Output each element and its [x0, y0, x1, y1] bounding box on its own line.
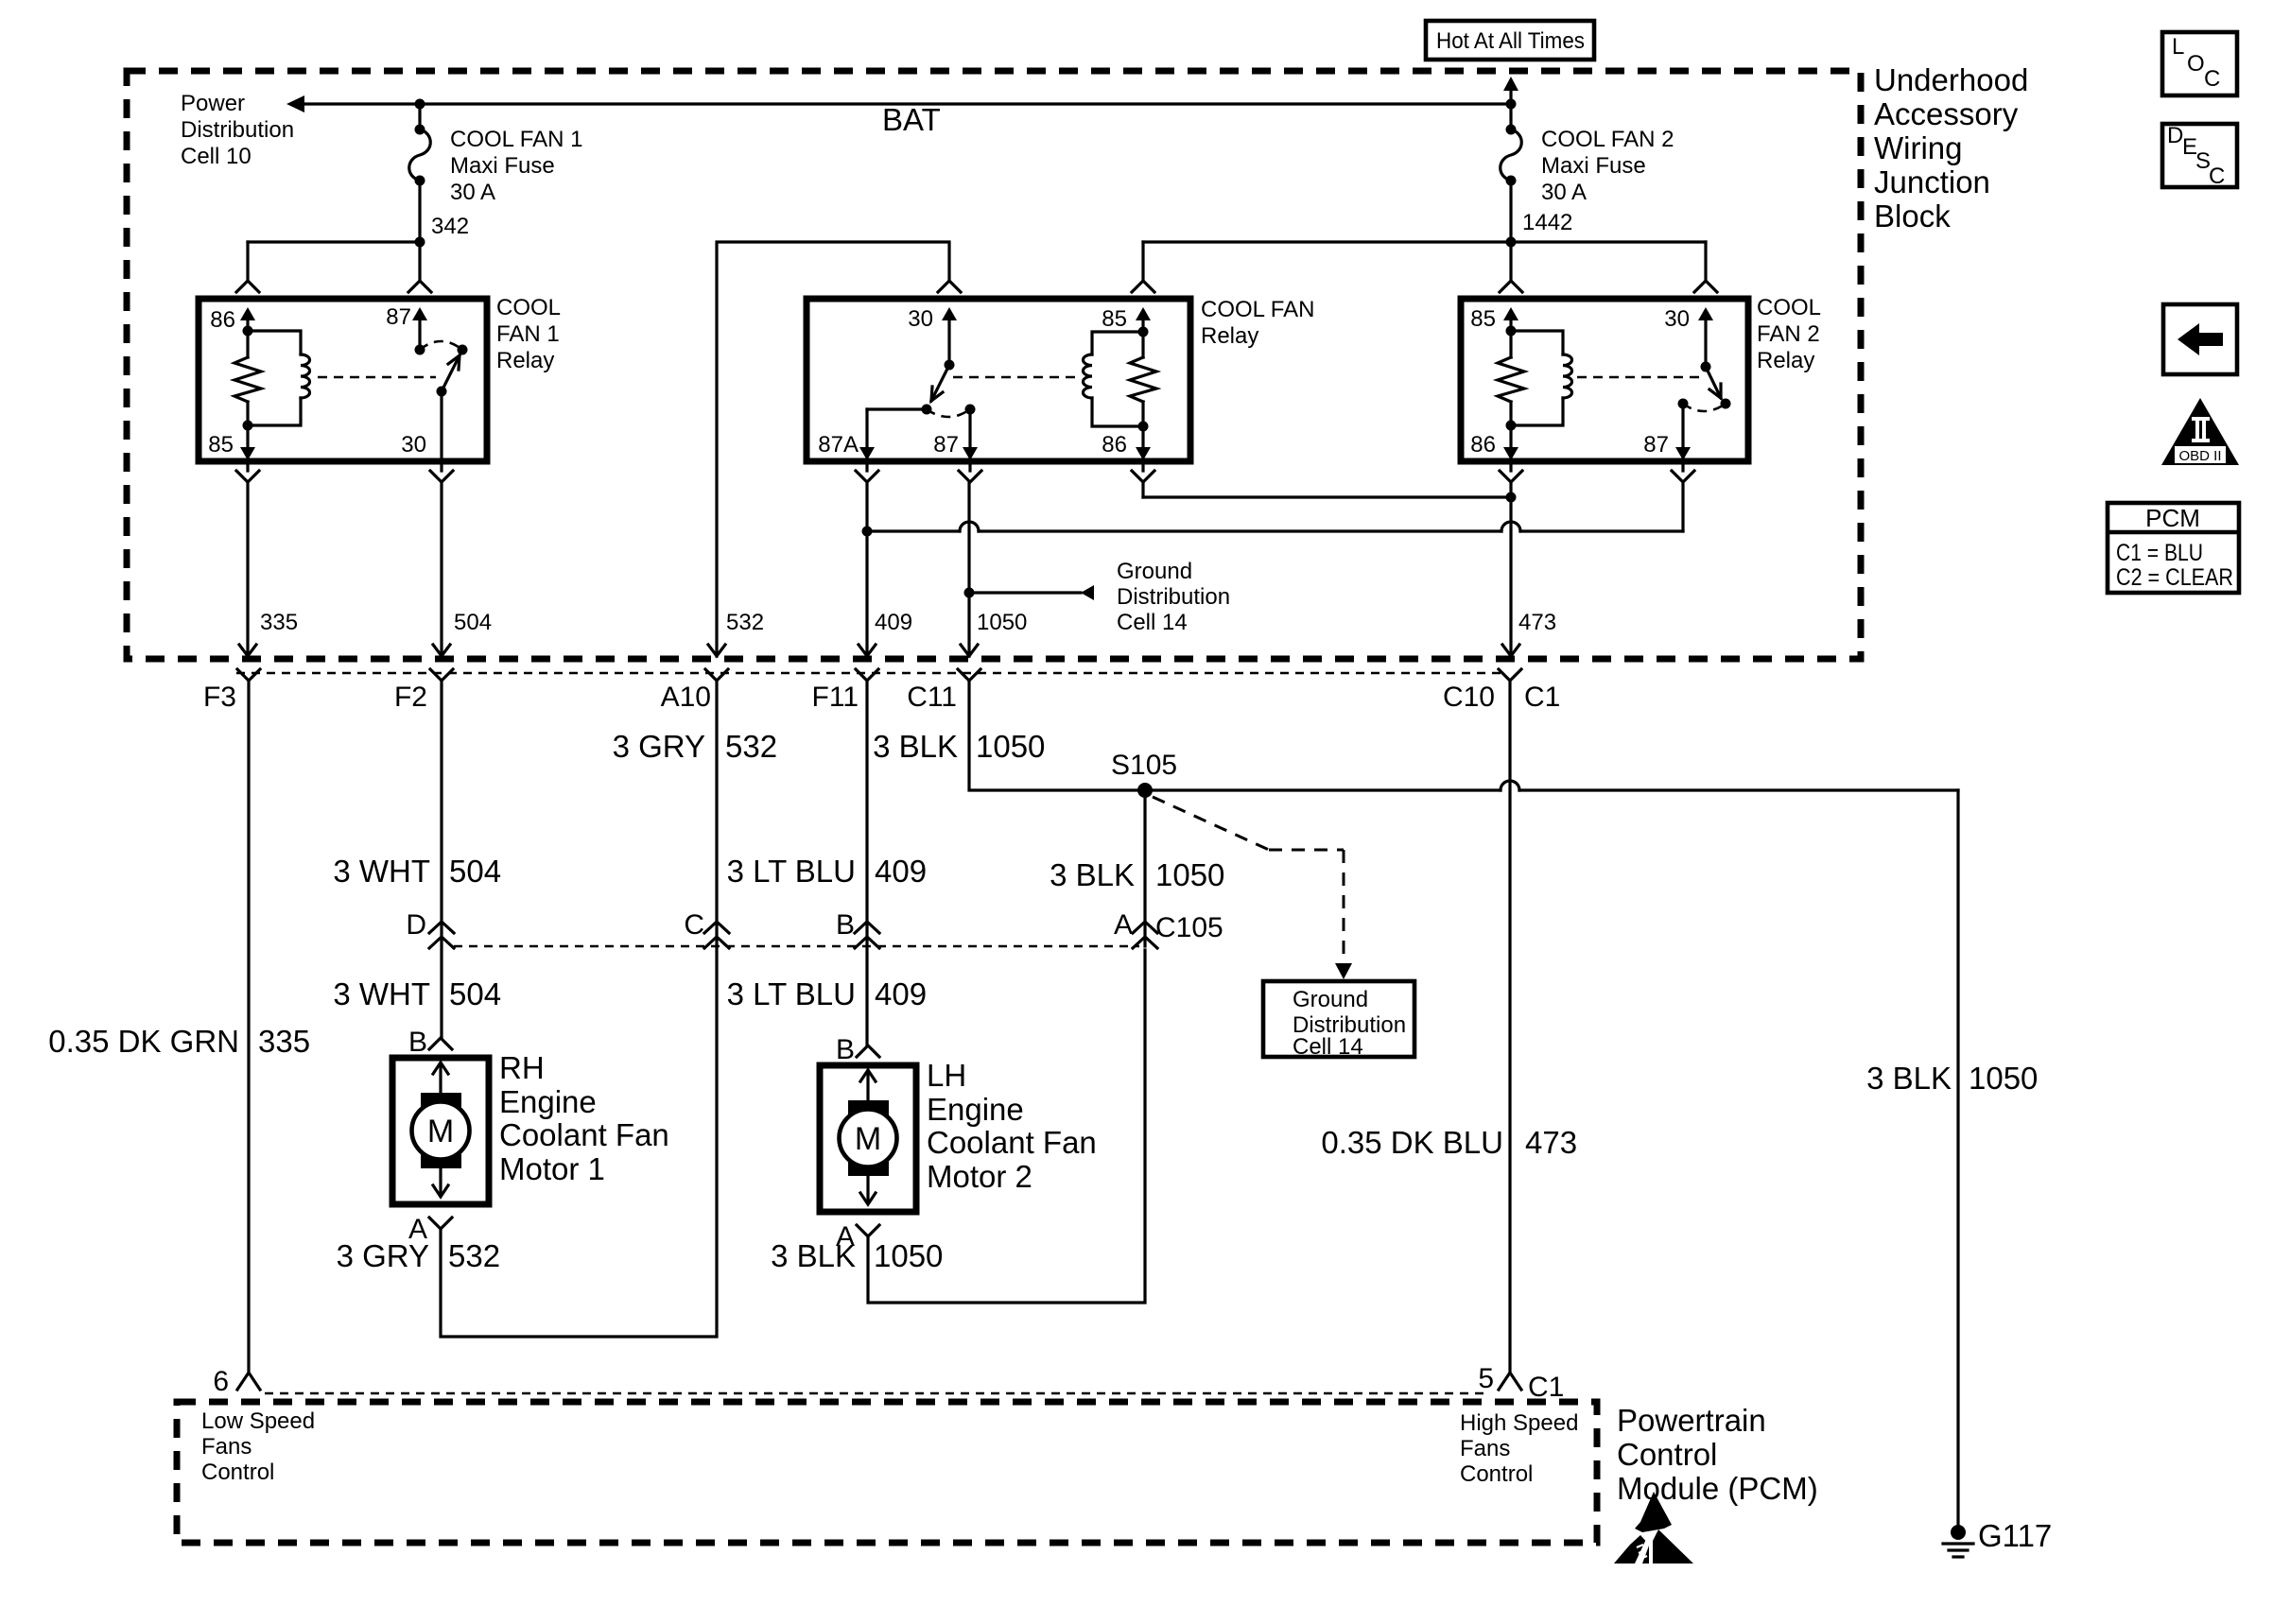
wire 504 (relay K1 30 to F2) — [433, 482, 492, 656]
svg-text:87: 87 — [933, 432, 959, 458]
svg-text:504: 504 — [449, 854, 501, 889]
svg-text:85: 85 — [1470, 306, 1496, 332]
wire 473 (C10 to PCM pin 5) — [1508, 681, 1511, 1373]
svg-text:C11: C11 — [907, 682, 957, 713]
svg-text:Motor 2: Motor 2 — [927, 1159, 1032, 1194]
connector F3 — [203, 669, 260, 713]
relay K3 pin 87 — [1643, 404, 1691, 460]
relay K1 switch (arm + dashed throw arc) — [420, 341, 468, 397]
motor M1 connector pin A — [408, 1214, 452, 1245]
box: Ground Distribution Cell 14 — [1263, 981, 1414, 1060]
icon: OBD II triangle — [2161, 398, 2239, 465]
svg-text:F3: F3 — [203, 682, 236, 713]
PCM dashed box: Powertrain Control Module — [177, 1402, 1597, 1543]
svg-text:85: 85 — [208, 432, 234, 458]
svg-text:30: 30 — [1664, 306, 1690, 332]
svg-text:M: M — [427, 1114, 454, 1149]
svg-text:Junction: Junction — [1874, 164, 1990, 199]
label 3 LT BLU 409 (upper) — [727, 854, 927, 889]
relay K1 box: COOL FAN 1 Relay — [199, 299, 487, 461]
svg-text:COOL FAN 2: COOL FAN 2 — [1541, 127, 1674, 152]
svg-text:335: 335 — [258, 1024, 310, 1059]
relay K3 resistor — [1498, 331, 1524, 425]
svg-text:409: 409 — [875, 610, 912, 635]
svg-text:Relay: Relay — [1201, 323, 1258, 349]
svg-text:Ground: Ground — [1293, 987, 1368, 1012]
relay K2 pin 87 — [933, 409, 978, 460]
svg-text:3 LT BLU: 3 LT BLU — [727, 854, 856, 889]
relay K1 pin 86 — [210, 307, 255, 337]
svg-text:Distribution: Distribution — [181, 117, 294, 143]
connector F2 — [394, 669, 453, 713]
connector row dashed line (junction block bottom) — [236, 672, 1503, 675]
svg-text:3 LT BLU: 3 LT BLU — [727, 976, 856, 1011]
relay K2 switch (arm + dashed throw arc) — [922, 365, 976, 417]
relay K1 coil — [243, 331, 310, 431]
relay K3 switch (arm + dashed throw arc) — [1678, 367, 1731, 411]
label: Powertrain Control Module (PCM) — [1617, 1403, 1818, 1506]
svg-text:Module (PCM): Module (PCM) — [1617, 1471, 1818, 1506]
connector chevrons above relay K1 — [236, 281, 431, 292]
svg-text:OBD II: OBD II — [2178, 448, 2221, 464]
connector chevrons below relay K3 — [1500, 461, 1694, 482]
svg-text:LH: LH — [927, 1058, 966, 1093]
svg-text:C: C — [2209, 164, 2225, 189]
svg-text:Cell 10: Cell 10 — [181, 144, 252, 169]
label: Underhood Accessory Wiring Junction Block — [1874, 62, 2028, 233]
svg-text:1442: 1442 — [1522, 210, 1572, 235]
svg-text:473: 473 — [1525, 1125, 1577, 1160]
svg-text:Coolant Fan: Coolant Fan — [927, 1125, 1097, 1160]
svg-text:Ground: Ground — [1117, 559, 1192, 584]
svg-text:3 BLK: 3 BLK — [1866, 1061, 1952, 1096]
svg-text:COOL: COOL — [496, 295, 561, 320]
wire 532 rail (A10 riser to relay K2 30) — [708, 242, 949, 656]
relay K2 pin 86 — [1102, 426, 1151, 460]
fuse F2: COOL FAN 2 Maxi Fuse 30 A — [1501, 77, 1674, 205]
label 3 GRY 532 (motor M1 A) — [337, 1238, 501, 1273]
svg-text:87: 87 — [386, 304, 411, 330]
svg-text:0.35 DK BLU: 0.35 DK BLU — [1321, 1125, 1503, 1160]
svg-text:335: 335 — [260, 610, 298, 635]
box: Hot At All Times — [1426, 21, 1594, 60]
connector C10 / C1 — [1443, 669, 1560, 713]
svg-text:Fans: Fans — [201, 1434, 252, 1460]
wire 409 (F11 to motor M2 pin B) — [865, 681, 868, 1045]
svg-text:Wiring: Wiring — [1874, 130, 1963, 165]
wire 532 (A10 to motor M1 pin A loop) — [441, 681, 717, 1337]
svg-text:COOL: COOL — [1757, 295, 1821, 320]
svg-text:C105: C105 — [1155, 912, 1223, 943]
label 3 GRY 532 (upper) — [613, 729, 778, 764]
ESD sensitivity symbol — [1614, 1492, 1693, 1564]
svg-text:F2: F2 — [394, 682, 427, 713]
svg-text:3 GRY: 3 GRY — [337, 1238, 429, 1273]
wire 409 drop (relay K2 87A to F11) with junction to fan2 87 line — [859, 482, 912, 656]
label: High Speed Fans Control — [1460, 1410, 1578, 1487]
icon: back arrow box — [2163, 304, 2237, 374]
svg-text:1050: 1050 — [874, 1238, 943, 1273]
connector chevrons above relay K2 — [938, 281, 1154, 292]
relay K2 actuation dashed link — [953, 376, 1076, 379]
icon: LOC box — [2162, 32, 2237, 95]
svg-text:1050: 1050 — [977, 610, 1027, 635]
svg-text:86: 86 — [210, 307, 235, 333]
relay K2 pin 30 — [908, 306, 957, 371]
svg-text:RH: RH — [499, 1050, 545, 1085]
motor M1 box — [392, 1058, 489, 1204]
connector chevrons below relay K2 — [856, 461, 1154, 482]
svg-text:C1: C1 — [1528, 1372, 1564, 1403]
svg-text:86: 86 — [1102, 432, 1127, 458]
svg-text:3 GRY: 3 GRY — [613, 729, 705, 764]
relay K2 pin 85 — [1102, 306, 1151, 337]
svg-text:D: D — [406, 909, 426, 941]
svg-text:C10: C10 — [1443, 682, 1495, 713]
connector C105 pin B — [836, 909, 879, 948]
ground G117 — [1943, 1518, 2052, 1557]
svg-text:409: 409 — [875, 976, 927, 1011]
svg-text:3 WHT: 3 WHT — [333, 854, 430, 889]
svg-text:30 A: 30 A — [1541, 180, 1587, 205]
svg-text:532: 532 — [448, 1238, 500, 1273]
svg-text:A10: A10 — [661, 682, 711, 713]
wire 1050 (C11 to S105) — [969, 681, 1137, 790]
svg-text:Fans: Fans — [1460, 1436, 1510, 1461]
svg-text:87: 87 — [1643, 432, 1669, 458]
label 0.35 DK BLU 473 — [1321, 1125, 1577, 1160]
connector F11 — [812, 669, 878, 713]
connector C105 pin C — [684, 909, 729, 948]
relay K2 resistor — [1130, 332, 1156, 426]
relay K2 pin 87A — [818, 409, 927, 460]
svg-text:Hot At All Times: Hot At All Times — [1436, 28, 1585, 54]
svg-text:Control: Control — [1617, 1437, 1717, 1472]
wire link: relay K2 86 to wire 473 — [1143, 482, 1517, 503]
label 3 BLK 1050 (middle) — [1050, 857, 1224, 892]
relay K1 actuation dashed link — [318, 376, 436, 379]
svg-text:1050: 1050 — [1969, 1061, 2038, 1096]
fuse F1: COOL FAN 1 Maxi Fuse 30 A — [409, 104, 583, 205]
svg-text:Block: Block — [1874, 199, 1951, 233]
svg-text:Power: Power — [181, 91, 245, 116]
svg-text:409: 409 — [875, 854, 927, 889]
label 3 BLK 1050 (motor M2 A) — [771, 1238, 943, 1273]
relay K2 box: COOL FAN Relay — [807, 299, 1190, 461]
wire 1050 (S105 to C105 pin A) — [1143, 790, 1146, 946]
svg-text:BAT: BAT — [882, 102, 941, 137]
relay K1 pin 30 — [401, 391, 442, 461]
svg-text:PCM: PCM — [2145, 504, 2200, 532]
svg-text:504: 504 — [454, 610, 492, 635]
connector C11 — [907, 669, 980, 713]
relay K3 pin 30 — [1664, 306, 1713, 372]
relay K1 pin 87 — [386, 304, 427, 355]
label 3 WHT 504 (lower) — [333, 976, 501, 1011]
PCM connector pin 5 C1 — [1478, 1363, 1564, 1403]
label: LH Engine Coolant Fan Motor 2 — [927, 1058, 1097, 1194]
motor M2 symbol — [840, 1070, 897, 1204]
svg-text:C: C — [2204, 66, 2220, 92]
connector C105 dashed row — [454, 945, 1139, 948]
svg-text:30 A: 30 A — [450, 180, 495, 205]
svg-text:532: 532 — [725, 729, 777, 764]
svg-text:Control: Control — [1460, 1461, 1533, 1487]
svg-text:Engine: Engine — [499, 1084, 597, 1119]
label: Low Speed Fans Control — [201, 1408, 315, 1485]
motor M1 symbol — [412, 1063, 470, 1197]
connector C105 pin D — [406, 909, 454, 948]
connector C105 pin A — [1114, 909, 1223, 948]
label 3 BLK 1050 (right) — [1866, 1061, 2038, 1096]
svg-text:Relay: Relay — [496, 348, 554, 373]
svg-text:3 BLK: 3 BLK — [873, 729, 958, 764]
wire: motor M2 A loop to C105 pin A — [868, 950, 1145, 1303]
svg-text:87A: 87A — [818, 432, 859, 458]
svg-text:Distribution: Distribution — [1117, 584, 1230, 610]
svg-text:Powertrain: Powertrain — [1617, 1403, 1766, 1438]
wire 1050 (S105 to G117) with hop over wire 473 — [1145, 781, 1958, 1528]
motor M2 connector pin B — [836, 1034, 879, 1065]
wire 473 drop (relay K3 86 to C10) — [1502, 482, 1556, 656]
svg-text:Engine: Engine — [927, 1092, 1024, 1127]
svg-text:S105: S105 — [1111, 750, 1177, 781]
svg-text:COOL FAN: COOL FAN — [1201, 297, 1314, 322]
svg-text:G117: G117 — [1978, 1518, 2052, 1553]
svg-text:473: 473 — [1518, 610, 1556, 635]
motor M1 connector pin B — [408, 1027, 452, 1058]
svg-text:High Speed: High Speed — [1460, 1410, 1578, 1436]
svg-text:0.35 DK GRN: 0.35 DK GRN — [48, 1024, 239, 1059]
label: COOL FAN Relay — [1201, 297, 1314, 349]
motor M2 connector pin A — [836, 1221, 879, 1253]
wire 342 — [248, 181, 469, 281]
svg-text:C1 = BLU: C1 = BLU — [2116, 540, 2203, 566]
svg-text:30: 30 — [908, 306, 933, 332]
connector A10 — [661, 669, 728, 713]
label: COOL FAN 1 Relay — [496, 295, 561, 373]
label 0.35 DK GRN 335 — [48, 1024, 310, 1059]
relay K3 box: COOL FAN 2 Relay — [1461, 299, 1748, 461]
wire 335 (F3 to PCM pin 6) — [247, 681, 250, 1373]
svg-text:30: 30 — [401, 432, 426, 458]
svg-text:1050: 1050 — [1155, 857, 1224, 892]
icon: DESC box — [2162, 123, 2237, 189]
svg-text:Accessory: Accessory — [1874, 96, 2019, 131]
svg-text:B: B — [836, 1034, 855, 1065]
svg-text:A: A — [1114, 909, 1133, 941]
dashed callout from S105 to Ground Distribution Cell 14 — [1153, 797, 1352, 979]
relay K3 coil — [1506, 331, 1572, 431]
wire 1050 drop (relay K2 87 to C11) with ground-distribution tap — [961, 482, 1094, 656]
PCM connector pin 6 — [213, 1366, 260, 1397]
label 3 WHT 504 (upper) — [333, 854, 501, 889]
svg-text:O: O — [2187, 51, 2205, 77]
svg-text:F11: F11 — [812, 682, 859, 713]
svg-text:L: L — [2172, 34, 2184, 60]
svg-text:504: 504 — [449, 976, 501, 1011]
relay K3 actuation dashed link — [1577, 376, 1702, 379]
motor M2 box — [820, 1065, 916, 1212]
svg-text:Cell 14: Cell 14 — [1117, 610, 1188, 635]
svg-text:FAN 1: FAN 1 — [496, 321, 560, 347]
PCM connector dashed row — [265, 1392, 1484, 1395]
label: Ground Distribution Cell 14 (arrow callout) — [1117, 559, 1230, 635]
relay K1 pin 85 — [208, 425, 255, 460]
wire link: relay K3 87 to wire 409 (with hops) — [867, 482, 1683, 531]
svg-text:532: 532 — [726, 610, 764, 635]
label: RH Engine Coolant Fan Motor 1 — [499, 1050, 669, 1186]
connector chevrons above relay K3 — [1500, 281, 1717, 292]
label 3 BLK 1050 (upper) — [873, 729, 1045, 764]
svg-text:COOL FAN 1: COOL FAN 1 — [450, 127, 582, 152]
connector chevrons below relay K1 — [236, 461, 453, 482]
relay K3 pin 86 — [1470, 425, 1518, 460]
svg-text:Underhood: Underhood — [1874, 62, 2028, 97]
svg-text:C2 = CLEAR: C2 = CLEAR — [2116, 564, 2233, 591]
svg-text:3 BLK: 3 BLK — [771, 1238, 856, 1273]
label BAT — [882, 102, 941, 137]
svg-text:6: 6 — [213, 1366, 229, 1397]
wire 335 (relay K1 85 to F3) — [239, 482, 298, 656]
svg-text:86: 86 — [1470, 432, 1496, 458]
svg-text:Maxi Fuse: Maxi Fuse — [1541, 153, 1646, 179]
svg-text:FAN 2: FAN 2 — [1757, 321, 1820, 347]
svg-text:D: D — [2167, 123, 2183, 148]
svg-text:3 BLK: 3 BLK — [1050, 857, 1135, 892]
relay K1 resistor — [234, 331, 261, 425]
label: COOL FAN 2 Relay — [1757, 295, 1821, 373]
svg-text:C1: C1 — [1524, 682, 1560, 713]
label: Power Distribution Cell 10 — [181, 91, 294, 169]
wire BAT — [286, 95, 1517, 112]
svg-text:C: C — [684, 909, 704, 941]
svg-text:B: B — [836, 909, 855, 941]
svg-text:Low Speed: Low Speed — [201, 1408, 315, 1434]
svg-text:Coolant Fan: Coolant Fan — [499, 1117, 669, 1152]
svg-text:3 WHT: 3 WHT — [333, 976, 430, 1011]
svg-text:Cell 14: Cell 14 — [1293, 1034, 1363, 1060]
svg-text:Control: Control — [201, 1460, 274, 1485]
svg-text:85: 85 — [1102, 306, 1127, 332]
wire 1442 — [1143, 181, 1706, 281]
legend box: PCM connectors — [2108, 503, 2239, 593]
svg-text:Motor 1: Motor 1 — [499, 1151, 605, 1186]
svg-text:5: 5 — [1478, 1363, 1494, 1394]
junction block dashed box: Underhood Accessory Wiring Junction Block — [127, 71, 1861, 659]
svg-text:342: 342 — [431, 214, 469, 239]
svg-text:1050: 1050 — [976, 729, 1045, 764]
relay K2 coil — [1084, 332, 1149, 432]
svg-text:M: M — [855, 1121, 881, 1157]
splice S105 — [1111, 750, 1177, 798]
wire 504 (F2 to motor M1 pin B) — [440, 681, 442, 1037]
svg-text:B: B — [408, 1027, 427, 1058]
relay K3 pin 85 — [1470, 306, 1518, 337]
svg-text:Maxi Fuse: Maxi Fuse — [450, 153, 555, 179]
label 3 LT BLU 409 (lower) — [727, 976, 927, 1011]
svg-text:Relay: Relay — [1757, 348, 1814, 373]
